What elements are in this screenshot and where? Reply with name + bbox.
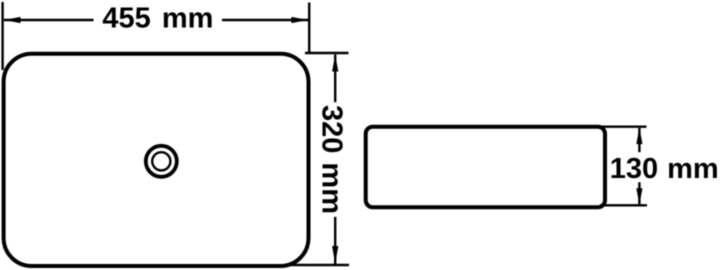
svg-text:320 mm: 320 mm <box>315 105 347 214</box>
svg-text:130 mm: 130 mm <box>610 153 719 185</box>
svg-text:455 mm: 455 mm <box>102 2 213 34</box>
